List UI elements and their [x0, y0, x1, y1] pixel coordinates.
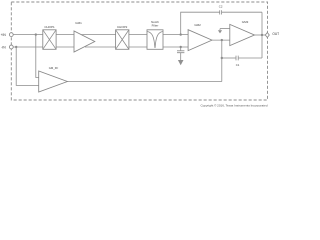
op-amp GM3: [230, 20, 255, 46]
svg-text:C1: C1: [236, 63, 240, 67]
node junction C1 riser: [221, 57, 223, 59]
svg-text:Copyright © 2016, Texas Instru: Copyright © 2016, Texas Instruments Inco…: [200, 104, 267, 108]
node junction cap on GM2 bottom input: [180, 46, 182, 48]
svg-text:C2: C2: [219, 5, 223, 9]
node junction C2 riser on GM2 top input: [180, 33, 182, 35]
wire C1 line left: [222, 57, 236, 59]
terminal -IN: [1, 45, 13, 49]
notch filter block: [147, 20, 163, 49]
wire C2 to output riser: [222, 11, 262, 13]
copyright notice: [200, 104, 267, 108]
wire CHOP1 to GM1 bottom: [56, 46, 75, 48]
wire GM1 to CHOP2 top: [80, 34, 116, 36]
wire CHOP1 to GM1 top: [56, 34, 75, 36]
wire GM2 output to GM3 input: [212, 39, 230, 41]
wire GM1 to CHOP2 bottom: [85, 46, 116, 48]
svg-text:Filter: Filter: [152, 24, 159, 28]
svg-text:CHOP1: CHOP1: [44, 25, 55, 29]
ground arrow below capacitor: [178, 60, 184, 65]
wire notch filter to GM2 top: [163, 34, 188, 36]
IC boundary dashed border: [11, 2, 267, 100]
wire notch filter to GM2 bottom: [163, 46, 188, 48]
node junction GM3 input: [221, 39, 223, 41]
op-amp GM2: [188, 23, 212, 50]
wire riser GM3 input down to C1 and GM_FF: [221, 40, 223, 81]
svg-text:GM3: GM3: [242, 20, 249, 24]
op-amp GM_FF feedforward: [39, 66, 68, 92]
chopper CHOP2: [116, 25, 129, 50]
svg-text:-IN: -IN: [1, 45, 6, 49]
capacitor C2: [219, 5, 223, 15]
svg-text:CHOP2: CHOP2: [117, 25, 128, 29]
wire -IN rail to CHOP1: [13, 46, 43, 48]
svg-text:OUT: OUT: [272, 32, 279, 36]
wire riser C1/C2 to output: [261, 12, 263, 58]
svg-text:GM1: GM1: [75, 21, 82, 25]
node junction output net: [261, 34, 263, 36]
wire GM_FF output to GM3 input riser: [67, 81, 221, 83]
wire GM3 output to OUT: [254, 34, 265, 36]
node junction +IN branch: [35, 33, 37, 35]
terminal OUT diamond: [265, 32, 279, 38]
svg-text:GM_FF: GM_FF: [49, 66, 59, 70]
capacitor to ground on GM2 bottom input: [177, 47, 184, 60]
op-amp GM1: [74, 21, 95, 52]
terminal +IN: [1, 33, 14, 37]
svg-text:+IN: +IN: [1, 33, 7, 37]
wire CHOP2 to notch filter bottom: [129, 46, 147, 48]
capacitor C1: [236, 56, 240, 67]
svg-text:GM2: GM2: [194, 23, 201, 27]
wire GM3 upper input with ground arrow: [220, 29, 230, 31]
ground arrow at GM3 upper input: [218, 30, 222, 33]
wire CHOP2 to notch filter top: [129, 34, 147, 36]
wire C1 line right: [238, 57, 262, 59]
chopper CHOP1: [43, 25, 56, 50]
node junction -IN branch: [15, 46, 17, 48]
wire C2 riser from GM2 top input: [181, 12, 220, 34]
wire +IN rail to CHOP1: [13, 34, 43, 36]
wire -IN branch down to GM_FF bottom input: [16, 47, 39, 85]
wire +IN branch down to GM_FF top input: [36, 35, 39, 78]
